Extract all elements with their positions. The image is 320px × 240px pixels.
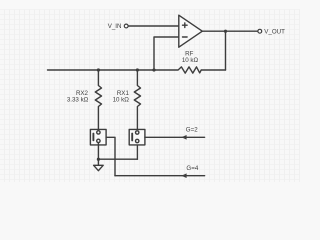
wire S2 to G=2 terminal <box>145 136 205 138</box>
op-amp minus sign <box>183 36 188 38</box>
svg-text:10 kΩ: 10 kΩ <box>182 57 199 64</box>
op-amp U1 <box>179 15 203 47</box>
node feedback junction <box>152 68 155 71</box>
wire bottom interconnect <box>98 158 137 160</box>
resistor RX2 3.33 kOhm <box>95 70 101 131</box>
terminal arrow G=4 <box>181 173 186 178</box>
wire op-amp output to V_OUT <box>202 30 258 32</box>
resistor RF 10 kOhm <box>154 67 201 73</box>
switch S2 box <box>129 129 145 145</box>
node output junction <box>224 30 227 33</box>
ground symbol <box>94 159 104 171</box>
op-amp plus sign <box>183 23 188 28</box>
resistor RX1 10 kOhm <box>134 70 140 131</box>
switch S2 actuator bar <box>131 134 133 141</box>
svg-text:10 kΩ: 10 kΩ <box>113 97 130 104</box>
terminal circle V_OUT <box>258 29 262 33</box>
terminal arrow G=2 <box>181 135 186 140</box>
svg-text:G=4: G=4 <box>186 165 198 172</box>
svg-text:3.33 kΩ: 3.33 kΩ <box>67 97 89 104</box>
switch S2 top pin circle <box>136 131 139 134</box>
wire feedback vertical from output node <box>225 31 227 70</box>
wire V_IN to op-amp noninverting input <box>128 25 179 27</box>
wire G=4 terminal line <box>115 175 205 177</box>
switch S2 bottom pin circle <box>136 139 139 142</box>
wire bus right segment RF to feedback <box>202 69 226 71</box>
svg-text:G=2: G=2 <box>186 126 198 133</box>
node ground junction <box>97 158 100 161</box>
wire inverting input feedback <box>154 37 179 70</box>
switch S1 actuator bar <box>92 134 94 141</box>
wire S1 bottom to ground junction <box>97 143 99 159</box>
terminal circle V_IN <box>124 24 128 28</box>
node bus RX1 junction <box>136 68 139 71</box>
svg-text:V_IN: V_IN <box>108 23 122 30</box>
wire S1 side tap <box>106 137 115 175</box>
wire main bus <box>48 69 155 71</box>
switch S1 bottom pin circle <box>97 139 100 142</box>
switch S1 top pin circle <box>97 131 100 134</box>
svg-text:V_OUT: V_OUT <box>264 29 285 36</box>
node bus RX2 junction <box>97 68 100 71</box>
switch S1 box <box>90 129 106 145</box>
wire S2 bottom vertical <box>136 143 138 159</box>
